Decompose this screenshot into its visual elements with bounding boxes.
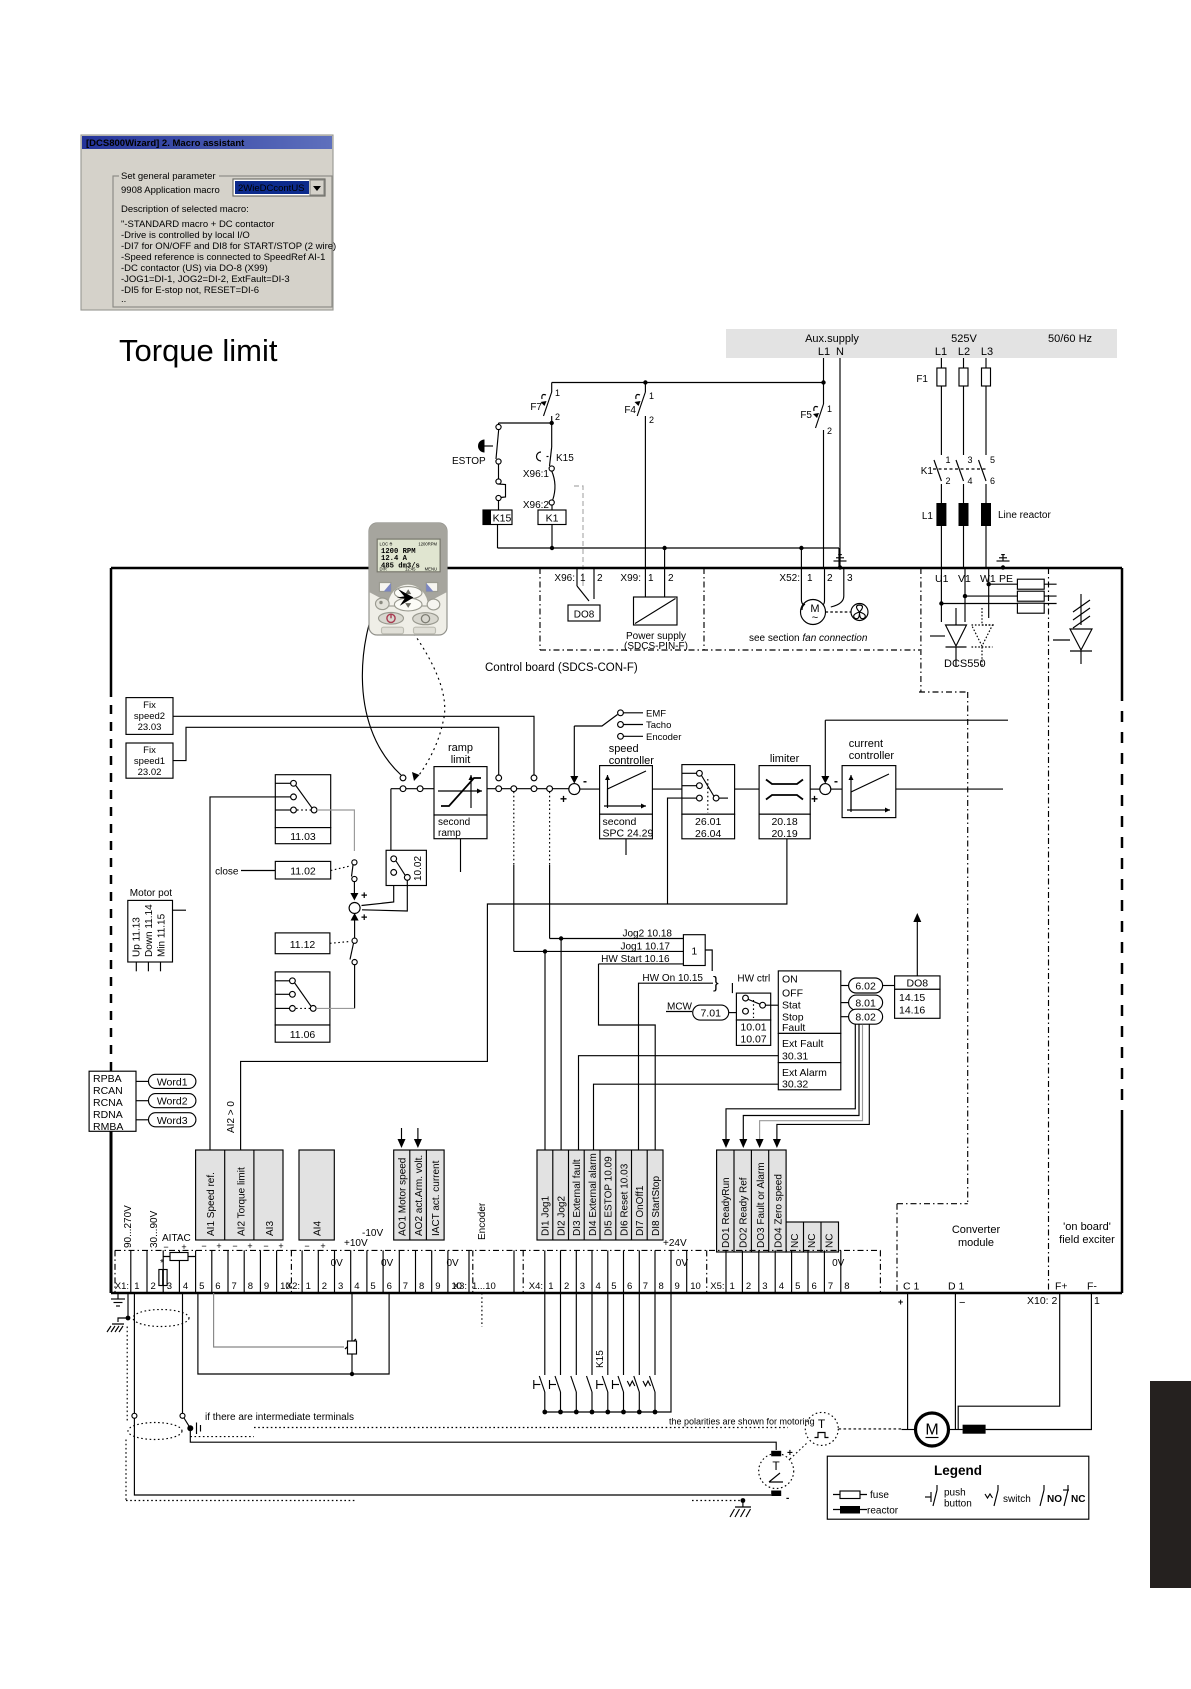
wire to X52:1 — [800, 548, 802, 600]
legend NC — [1064, 1490, 1068, 1506]
svg-text:L2: L2 — [958, 346, 970, 358]
svg-text:1: 1 — [649, 391, 654, 401]
svg-text:4: 4 — [779, 1281, 784, 1292]
contact DI3 — [575, 1293, 577, 1375]
svg-text:23.02: 23.02 — [138, 767, 162, 778]
X96 board terminals with DO8 contact — [554, 568, 603, 621]
svg-text:Encoder: Encoder — [477, 1202, 488, 1240]
wire W1 — [988, 568, 990, 618]
svg-text:7: 7 — [828, 1281, 833, 1292]
voltage labels — [331, 1228, 845, 1269]
fan blade icon — [851, 604, 868, 621]
svg-text:F1: F1 — [916, 374, 928, 385]
svg-text:}: } — [713, 973, 719, 992]
svg-text:K15: K15 — [493, 513, 512, 525]
svg-text:F-: F- — [1087, 1281, 1097, 1293]
svg-text:-: - — [834, 774, 838, 788]
wire box bottom bus — [111, 1292, 1122, 1295]
svg-text:module: module — [958, 1237, 994, 1249]
svg-text:RPBA: RPBA — [93, 1073, 122, 1085]
svg-text:NC: NC — [807, 1234, 818, 1248]
fuse-switch F7 — [551, 383, 553, 393]
wire U1 — [940, 568, 942, 622]
svg-text:2: 2 — [322, 1281, 327, 1292]
ground on N line — [838, 565, 842, 569]
tacho generator T — [759, 1443, 807, 1504]
svg-text:the polarities are shown for m: the polarities are shown for motoring — [669, 1417, 815, 1427]
fan motor M — [801, 600, 826, 625]
current transducer stack — [1017, 579, 1044, 589]
legend NO — [1040, 1490, 1044, 1506]
svg-text:RCAN: RCAN — [93, 1085, 123, 1097]
svg-text:26.04: 26.04 — [695, 828, 721, 840]
svg-text:30...90V: 30...90V — [149, 1210, 160, 1248]
power supply SDCS-PIN-F — [634, 597, 678, 625]
svg-text:DO1 ReadyRun: DO1 ReadyRun — [721, 1177, 732, 1248]
svg-text:AI1 Speed ref.: AI1 Speed ref. — [206, 1172, 217, 1236]
svg-text:2: 2 — [746, 1281, 751, 1292]
svg-text:MENU: MENU — [425, 567, 437, 572]
wire AI1 riser — [210, 797, 275, 1150]
AITAC input — [159, 1233, 195, 1286]
wire aux L1 — [823, 358, 825, 404]
svg-text:fuse: fuse — [870, 1490, 889, 1501]
svg-text:speed: speed — [609, 743, 639, 755]
svg-text:2: 2 — [827, 573, 833, 584]
start key — [413, 613, 439, 625]
svg-text:DO8: DO8 — [574, 610, 595, 621]
svg-text:K15: K15 — [556, 453, 574, 464]
svg-text:Line reactor: Line reactor — [998, 510, 1051, 521]
block Fix speed2 23.03 — [126, 698, 173, 735]
wire L3 phase — [985, 358, 987, 368]
svg-text:NC: NC — [1071, 1494, 1085, 1505]
svg-text:Control board (SDCS-CON-F): Control board (SDCS-CON-F) — [485, 662, 638, 674]
wire DO8 arrow up — [916, 921, 918, 976]
svg-text:X10: 2: X10: 2 — [1027, 1295, 1058, 1307]
svg-text:Ext Fault: Ext Fault — [782, 1038, 824, 1050]
svg-text:switch: switch — [1003, 1494, 1031, 1505]
svg-text:23.03: 23.03 — [138, 722, 162, 733]
svg-text:NC: NC — [790, 1234, 801, 1248]
svg-text:6.02: 6.02 — [855, 981, 876, 993]
svg-text:7.01: 7.01 — [700, 1008, 721, 1020]
wire estop horizontal — [499, 422, 552, 424]
wire F4 to X99:1 — [644, 416, 646, 597]
svg-text:Min 11.15: Min 11.15 — [157, 913, 168, 957]
terminal block X4 — [529, 1250, 701, 1293]
LCD display — [377, 539, 440, 572]
terminal X96:1 — [549, 466, 554, 471]
link tacho-encoder — [790, 1443, 807, 1459]
svg-text:NC: NC — [825, 1234, 836, 1248]
panel body — [369, 523, 447, 635]
wire riser to 10.02 — [390, 789, 392, 851]
svg-text:5: 5 — [199, 1281, 204, 1292]
svg-text:AO1 Motor speed: AO1 Motor speed — [398, 1158, 409, 1236]
node F4 tap — [643, 380, 647, 384]
svg-text:N: N — [836, 346, 844, 358]
svg-text:[DCS800Wizard] 2. Macro assist: [DCS800Wizard] 2. Macro assistant — [86, 138, 245, 149]
contact DI1 — [544, 1293, 546, 1375]
summing node 2 — [810, 788, 820, 790]
svg-text:14.16: 14.16 — [899, 1005, 925, 1017]
wire box right edge — [1121, 568, 1124, 690]
svg-text:11.02: 11.02 — [290, 866, 316, 878]
svg-text:3: 3 — [338, 1281, 343, 1292]
svg-text:Jog1 10.17: Jog1 10.17 — [621, 941, 671, 952]
analog output label group — [394, 1150, 444, 1240]
svg-text:RCNA: RCNA — [93, 1097, 123, 1109]
contact DI2 — [560, 1293, 562, 1375]
svg-text:+: + — [216, 1241, 221, 1251]
switch block 10.01/10.07 — [736, 993, 770, 1020]
Motor pot block — [128, 888, 186, 971]
wire Jog2 — [550, 938, 684, 940]
svg-text:..: .. — [121, 294, 126, 305]
selector EMF/Tacho/Encoder — [574, 715, 617, 727]
terminal block X3 — [453, 1250, 514, 1293]
svg-text:F5: F5 — [800, 410, 812, 421]
svg-text:Word1: Word1 — [157, 1076, 188, 1088]
svg-text:11.06: 11.06 — [290, 1029, 316, 1041]
svg-text:DO3 Fault or Alarm: DO3 Fault or Alarm — [756, 1162, 767, 1248]
wire L2 phase — [963, 358, 965, 368]
svg-text:5: 5 — [370, 1281, 375, 1292]
contact DI4 — [591, 1293, 593, 1375]
svg-text:9: 9 — [264, 1281, 269, 1292]
terminal block X5 — [710, 1250, 849, 1293]
wire tacho minus — [133, 1293, 135, 1413]
svg-text:12:45: 12:45 — [405, 567, 416, 572]
mid reference chain — [126, 698, 1008, 1150]
block DO8 14.15 — [883, 985, 895, 987]
svg-text:ramp: ramp — [438, 828, 461, 839]
svg-text:*: * — [160, 1258, 164, 1269]
svg-text:2WieDCcontUS: 2WieDCcontUS — [238, 183, 305, 194]
svg-text:0V: 0V — [381, 1258, 394, 1269]
svg-text:DI3 External fault: DI3 External fault — [572, 1159, 583, 1236]
svg-text:-DI5 for E-stop not, RESET=DI-: -DI5 for E-stop not, RESET=DI-6 — [121, 285, 259, 296]
left round key — [376, 598, 390, 610]
svg-text:10: 10 — [690, 1281, 701, 1292]
oval Word3 — [136, 1119, 149, 1121]
svg-text:3: 3 — [847, 573, 853, 584]
terminal block X2 — [286, 1250, 462, 1293]
svg-text:Motor pot: Motor pot — [130, 888, 172, 899]
wire fix speed1 — [173, 727, 499, 775]
svg-text:+24V: +24V — [663, 1238, 687, 1249]
left selector column — [210, 775, 426, 1150]
legend box — [827, 1456, 1089, 1519]
svg-text:ramp: ramp — [448, 742, 473, 754]
svg-text:(SDCS-PIN-F): (SDCS-PIN-F) — [624, 641, 688, 652]
node aux junction — [821, 380, 825, 384]
svg-text:-Speed reference is connected: -Speed reference is connected to SpeedRe… — [121, 252, 325, 263]
wire current feedback — [825, 719, 1008, 721]
svg-text:DI6 Reset 10.03: DI6 Reset 10.03 — [619, 1163, 630, 1236]
svg-text:DO2 Ready Ref: DO2 Ready Ref — [739, 1177, 750, 1248]
svg-text:DCS550: DCS550 — [944, 658, 986, 670]
svg-text:DI1 Jog1: DI1 Jog1 — [541, 1196, 552, 1236]
svg-text:1: 1 — [134, 1281, 139, 1292]
svg-text:+: + — [278, 1241, 283, 1251]
svg-text:X3:: X3: — [453, 1281, 467, 1292]
intermediate terminal mark — [196, 1423, 198, 1435]
contact DI6 — [623, 1293, 625, 1375]
svg-text:X2:: X2: — [286, 1281, 300, 1292]
svg-text:1: 1 — [730, 1281, 735, 1292]
svg-text:1: 1 — [1094, 1295, 1100, 1307]
svg-text:C 1: C 1 — [903, 1281, 920, 1293]
svg-text:525V: 525V — [951, 333, 977, 345]
field exciter thyristor — [1080, 594, 1082, 625]
svg-text:-: - — [786, 1493, 789, 1504]
svg-text:2: 2 — [597, 573, 603, 584]
svg-text:D 1: D 1 — [948, 1281, 965, 1293]
svg-text:push: push — [944, 1488, 966, 1499]
svg-text:SPC 24.29: SPC 24.29 — [603, 828, 654, 840]
switch block 10.02 — [386, 850, 426, 885]
svg-text:X96:1: X96:1 — [523, 469, 550, 480]
svg-text:DIR: DIR — [380, 567, 387, 572]
wire tacho plus — [182, 1293, 184, 1413]
gate OR 1 — [683, 935, 705, 966]
supply banner — [726, 329, 1117, 358]
svg-text:F7: F7 — [530, 402, 542, 413]
svg-text:field exciter: field exciter — [1059, 1234, 1115, 1246]
terminal strip dash-dot line — [115, 1250, 880, 1293]
wire DO outputs — [726, 1025, 855, 1141]
svg-text:DO4 Zero speed: DO4 Zero speed — [773, 1174, 784, 1248]
fuse-switch F4 — [644, 383, 646, 393]
svg-text:1200RPM: 1200RPM — [418, 542, 437, 547]
wire box left edge — [110, 568, 113, 688]
svg-text:"-STANDARD macro + DC contacto: "-STANDARD macro + DC contactor — [121, 219, 274, 230]
svg-text:5: 5 — [990, 455, 995, 465]
svg-text:-JOG1=DI-1, JOG2=DI-2, ExtFaul: -JOG1=DI-1, JOG2=DI-2, ExtFault=DI-3 — [121, 274, 290, 285]
svg-text:+: + — [247, 1241, 252, 1251]
svg-text:+: + — [898, 1297, 903, 1307]
svg-text:+10V: +10V — [344, 1238, 368, 1249]
ground main — [117, 1293, 119, 1299]
svg-text:second: second — [603, 816, 637, 828]
svg-text:DO8: DO8 — [907, 978, 929, 990]
svg-text:HW ctrl: HW ctrl — [737, 974, 770, 985]
svg-text:HW On 10.15: HW On 10.15 — [642, 973, 703, 984]
svg-text:~: ~ — [812, 612, 818, 624]
switch block 26.01/26.04 — [652, 788, 682, 790]
legend push button — [925, 1496, 931, 1498]
wire 26 feedback — [668, 798, 682, 904]
analog input label AI4 — [299, 1150, 334, 1240]
svg-text:AO2 act.Arm. volt.: AO2 act.Arm. volt. — [414, 1155, 425, 1236]
svg-text:1: 1 — [946, 455, 951, 465]
svg-text:10.02: 10.02 — [413, 856, 424, 881]
wire shield dotted runs — [126, 1327, 128, 1424]
svg-text:−: − — [959, 1297, 965, 1309]
svg-text:AI2 > 0: AI2 > 0 — [226, 1101, 237, 1133]
svg-text:50/60 Hz: 50/60 Hz — [1048, 333, 1092, 345]
wire firing output — [896, 788, 1003, 790]
relay coil K15 — [483, 510, 512, 525]
svg-text:1: 1 — [306, 1281, 311, 1292]
svg-text:10.07: 10.07 — [740, 1034, 766, 1046]
svg-text:DI8 StartStop: DI8 StartStop — [651, 1176, 662, 1236]
525V three-phase lines — [916, 358, 1051, 568]
svg-text:11.03: 11.03 — [290, 831, 316, 843]
svg-text:L1: L1 — [935, 346, 947, 358]
svg-text:2: 2 — [668, 573, 674, 584]
svg-text:+: + — [361, 890, 367, 902]
svg-text:L1: L1 — [818, 346, 830, 358]
svg-text:−: − — [232, 1241, 237, 1251]
K15 contact / X96 chain — [523, 423, 583, 588]
svg-text:11.12: 11.12 — [290, 939, 316, 951]
svg-text:8: 8 — [419, 1281, 424, 1292]
wire HW On — [639, 983, 714, 1150]
svg-text:limiter: limiter — [770, 753, 800, 765]
svg-text:2: 2 — [827, 426, 832, 436]
svg-text:4: 4 — [596, 1281, 601, 1292]
svg-text:1: 1 — [555, 388, 560, 398]
svg-text:5: 5 — [611, 1281, 616, 1292]
svg-text:LOC ⎊: LOC ⎊ — [380, 542, 394, 547]
panel wire curves — [362, 596, 401, 775]
svg-text:reactor: reactor — [867, 1506, 899, 1517]
svg-text:NO: NO — [1047, 1494, 1062, 1505]
wire F+ — [958, 1293, 1059, 1430]
relay contact DO8 — [568, 605, 600, 621]
svg-text:0V: 0V — [832, 1258, 845, 1269]
svg-text:8.01: 8.01 — [855, 998, 876, 1010]
svg-text:AI3: AI3 — [265, 1221, 276, 1236]
K15 digital input contacts — [534, 1293, 671, 1414]
svg-text:8.02: 8.02 — [855, 1012, 876, 1024]
svg-text:-10V: -10V — [362, 1228, 383, 1239]
svg-text:1: 1 — [548, 1281, 553, 1292]
cable shield — [133, 1310, 189, 1327]
summing node 1 — [569, 784, 580, 795]
svg-text:3: 3 — [968, 455, 973, 465]
wizard dialog screenshot — [81, 135, 336, 310]
terminal X96:2 — [549, 500, 554, 505]
svg-text:7: 7 — [643, 1281, 648, 1292]
svg-text:PE: PE — [999, 573, 1013, 585]
oval Word2 — [136, 1100, 149, 1102]
svg-text:DI7 OnOff1: DI7 OnOff1 — [635, 1185, 646, 1236]
svg-text:7: 7 — [232, 1281, 237, 1292]
mechanical link dashed — [574, 486, 583, 588]
block Fix speed1 23.02 — [126, 743, 173, 778]
mouse cursor — [397, 589, 414, 606]
svg-text:1: 1 — [807, 573, 813, 584]
svg-text:Legend: Legend — [934, 1463, 982, 1478]
svg-text:26.01: 26.01 — [695, 816, 721, 828]
wire box top edge — [111, 567, 1122, 570]
svg-text:F4: F4 — [624, 405, 636, 416]
svg-text:controller: controller — [849, 750, 895, 762]
wire N — [839, 358, 841, 566]
svg-text:K1: K1 — [921, 466, 934, 477]
control panel keypad — [362, 523, 447, 781]
svg-text:Word3: Word3 — [157, 1115, 188, 1127]
svg-text:14.15: 14.15 — [899, 992, 925, 1004]
svg-text:+: + — [560, 792, 567, 806]
svg-text:2: 2 — [555, 412, 560, 422]
svg-text:6: 6 — [387, 1281, 392, 1292]
wire HW Start — [599, 963, 684, 965]
svg-text:T: T — [818, 1417, 826, 1431]
svg-text:Description of selected macro:: Description of selected macro: — [121, 204, 249, 215]
svg-text:-: - — [583, 774, 587, 788]
contact DI5 — [607, 1293, 609, 1375]
legend reactor — [833, 1509, 867, 1511]
wire V1 — [964, 568, 966, 622]
svg-text:current: current — [849, 738, 883, 750]
svg-text:Up 11.13: Up 11.13 — [132, 917, 143, 957]
svg-text:Fix: Fix — [143, 745, 156, 756]
svg-text:2: 2 — [151, 1281, 156, 1292]
motor armature M — [898, 1293, 1091, 1446]
svg-text:1...10: 1...10 — [472, 1281, 496, 1292]
svg-text:6: 6 — [990, 476, 995, 486]
DC output labels — [903, 1221, 1115, 1307]
stop key — [379, 613, 404, 625]
svg-text:-DC contactor (US) via DO-8 (X: -DC contactor (US) via DO-8 (X99) — [121, 263, 268, 274]
NC terminal labels — [786, 1222, 838, 1252]
wire Jog1 — [514, 950, 684, 952]
svg-text:2: 2 — [946, 476, 951, 486]
switch block 11.03 — [275, 775, 330, 828]
control feed rail from F7 to aux — [530, 380, 823, 597]
svg-text:1: 1 — [648, 573, 654, 584]
field reactor — [963, 1425, 986, 1434]
svg-text:limit: limit — [451, 754, 471, 766]
svg-text:Tacho: Tacho — [646, 720, 671, 731]
svg-text:0V: 0V — [676, 1258, 689, 1269]
svg-text:1: 1 — [827, 404, 832, 414]
X99 board terminals — [620, 573, 688, 652]
digital input label group DI1-DI8 — [537, 1150, 663, 1240]
wire L1 phase — [940, 358, 942, 368]
svg-text:6: 6 — [812, 1281, 817, 1292]
wire AO arrows — [401, 1128, 403, 1140]
wire DI risers — [544, 951, 546, 1150]
ground PE — [1001, 565, 1005, 569]
svg-text:speed1: speed1 — [134, 756, 165, 767]
svg-text:Set general parameter: Set general parameter — [121, 171, 216, 182]
switch block 11.06 — [275, 972, 330, 1025]
svg-text:Ext Alarm: Ext Alarm — [782, 1067, 827, 1079]
svg-text:10.01: 10.01 — [740, 1022, 766, 1034]
svg-text:X4:: X4: — [529, 1281, 543, 1292]
lower control rail — [498, 546, 840, 600]
oval 6.02 — [841, 985, 849, 987]
DCS550 power section — [930, 555, 1092, 670]
svg-text:+: + — [320, 1241, 325, 1251]
svg-text:−: − — [201, 1241, 206, 1251]
svg-text:4: 4 — [183, 1281, 188, 1292]
dash-dot section borders — [540, 568, 1049, 1293]
potentiometer — [351, 1293, 353, 1341]
svg-text:8: 8 — [844, 1281, 849, 1292]
page tab marker — [1150, 1381, 1191, 1588]
node jumpers — [400, 775, 406, 781]
svg-text:-Drive is controlled by local: -Drive is controlled by local I/O — [121, 230, 250, 241]
svg-text:20.19: 20.19 — [771, 828, 797, 840]
wire top rail — [552, 382, 824, 384]
